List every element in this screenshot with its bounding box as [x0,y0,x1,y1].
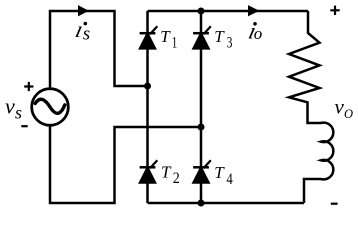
svg-text:1: 1 [172,34,178,51]
svg-text:s: s [83,24,90,45]
svg-text:v: v [5,93,15,118]
svg-text:v: v [335,95,345,119]
svg-text:O: O [344,107,353,121]
svg-text:s: s [15,102,22,122]
svg-text:3: 3 [227,35,233,52]
svg-text:o: o [254,24,262,43]
svg-text:T: T [214,163,225,182]
svg-text:T: T [160,27,171,46]
svg-text:T: T [161,163,172,182]
svg-text:T: T [214,27,225,46]
svg-text:2: 2 [173,170,180,187]
svg-text:4: 4 [226,171,232,188]
